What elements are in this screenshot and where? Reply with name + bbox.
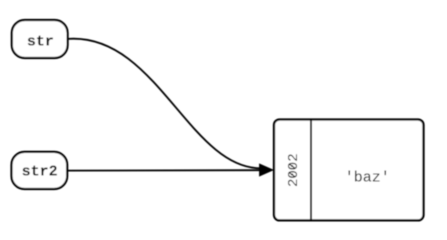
svg-text:'baz': 'baz' bbox=[345, 169, 390, 186]
svg-text:2002: 2002 bbox=[286, 153, 302, 187]
svg-text:str: str bbox=[27, 33, 54, 50]
svg-text:str2: str2 bbox=[22, 163, 58, 180]
